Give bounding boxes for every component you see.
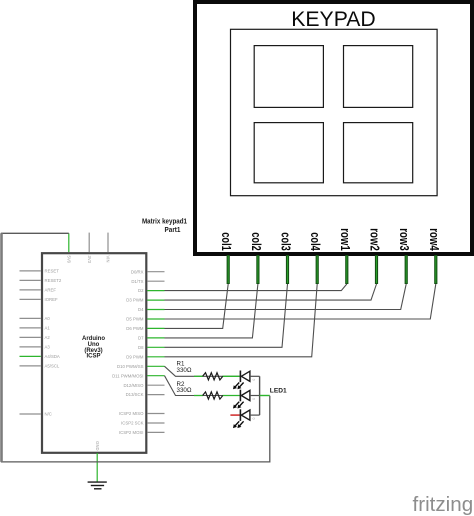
svg-text:D11 PWM/MOSI: D11 PWM/MOSI	[112, 373, 143, 378]
svg-text:D13/SCK: D13/SCK	[126, 392, 144, 397]
svg-text:0: 0	[252, 418, 256, 420]
svg-text:ICSP: ICSP	[86, 354, 100, 360]
svg-text:A2: A2	[45, 335, 51, 340]
svg-text:A3: A3	[45, 345, 51, 350]
svg-text:D9 PWM: D9 PWM	[126, 354, 144, 359]
svg-text:col4: col4	[308, 232, 323, 251]
svg-text:D6 PWM: D6 PWM	[126, 326, 144, 331]
svg-text:A4/SDA: A4/SDA	[45, 354, 60, 359]
svg-text:AREF: AREF	[45, 288, 57, 293]
svg-text:RESET: RESET	[45, 269, 60, 274]
svg-text:D2: D2	[138, 288, 144, 293]
svg-text:D4: D4	[138, 307, 144, 312]
svg-text:D7: D7	[138, 336, 144, 341]
svg-text:ICSP2 MISO: ICSP2 MISO	[119, 411, 144, 416]
svg-text:0: 0	[252, 379, 256, 381]
svg-text:row2: row2	[368, 228, 383, 251]
svg-text:D3 PWM: D3 PWM	[126, 298, 144, 303]
svg-text:D1/TX: D1/TX	[131, 279, 143, 284]
svg-text:LED1: LED1	[270, 388, 287, 395]
svg-text:5V0: 5V0	[66, 256, 71, 264]
svg-text:row1: row1	[338, 228, 353, 251]
svg-text:Part1: Part1	[165, 225, 181, 234]
svg-text:330Ω: 330Ω	[177, 387, 192, 394]
svg-text:row3: row3	[397, 228, 412, 251]
svg-text:D8: D8	[138, 345, 144, 350]
svg-text:N/C: N/C	[45, 412, 52, 417]
svg-text:IOREF: IOREF	[45, 297, 59, 302]
svg-text:GND: GND	[95, 441, 100, 450]
svg-text:D0/RX: D0/RX	[131, 269, 144, 274]
svg-text:D10 PWM/SS: D10 PWM/SS	[117, 364, 144, 369]
svg-text:VIN: VIN	[106, 256, 111, 263]
svg-text:D12/MISO: D12/MISO	[123, 383, 144, 388]
svg-text:3V3: 3V3	[87, 256, 92, 264]
svg-text:col1: col1	[219, 232, 234, 251]
svg-text:330Ω: 330Ω	[177, 367, 192, 374]
svg-text:ICSP2 MOSI: ICSP2 MOSI	[119, 430, 144, 435]
svg-text:A1: A1	[45, 326, 51, 331]
svg-text:KEYPAD: KEYPAD	[291, 8, 375, 31]
svg-text:D5 PWM: D5 PWM	[126, 317, 144, 322]
svg-text:col2: col2	[249, 232, 264, 251]
svg-text:ICSP2 SCK: ICSP2 SCK	[121, 421, 144, 426]
svg-text:0: 0	[252, 398, 256, 400]
svg-text:fritzing: fritzing	[413, 493, 474, 516]
svg-text:A5/SCL: A5/SCL	[45, 364, 60, 369]
svg-text:row4: row4	[427, 228, 442, 251]
svg-text:A0: A0	[45, 316, 51, 321]
svg-text:RESET2: RESET2	[45, 278, 62, 283]
svg-text:col3: col3	[279, 232, 294, 251]
